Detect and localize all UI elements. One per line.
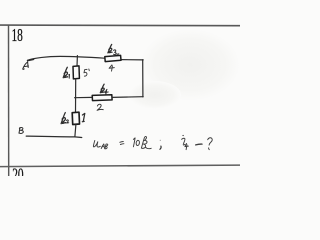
wire R2 down to corner: [75, 124, 76, 136]
node A label: [23, 62, 29, 69]
table: top rule: [0, 24, 240, 27]
resistor R3: [105, 55, 121, 61]
resistor R4: [92, 95, 112, 101]
svg-text:20: 20: [12, 166, 23, 176]
wire corner to R3: [121, 59, 144, 61]
wire right vertical: [142, 60, 144, 97]
wire stub to R1: [76, 56, 78, 67]
value 4 of R3: [109, 65, 114, 71]
resistor R2: [72, 112, 79, 124]
label R1: [63, 67, 68, 77]
formula i4 = ?: [182, 135, 213, 150]
table: bottom rule: [0, 165, 240, 167]
svg-text:18: 18: [12, 27, 23, 46]
value 1 of R2: [82, 113, 85, 121]
value 5 of R1: [84, 69, 89, 76]
value 2 of R4: [97, 104, 103, 110]
wire corner to node B: [26, 136, 82, 137]
resistor R1: [73, 66, 79, 79]
wire R4 to right corner: [112, 96, 143, 99]
wire R1 to R2 (vertical trunk): [75, 79, 77, 113]
table: left rule: [8, 25, 10, 176]
label R4: [100, 84, 104, 93]
label R3: [108, 44, 112, 53]
wire node A to R3: [28, 56, 105, 60]
node B label: [19, 128, 23, 134]
label R2: [61, 113, 66, 124]
wire junction to R4: [75, 96, 93, 98]
formula U_AB = 10 V: [93, 137, 161, 150]
